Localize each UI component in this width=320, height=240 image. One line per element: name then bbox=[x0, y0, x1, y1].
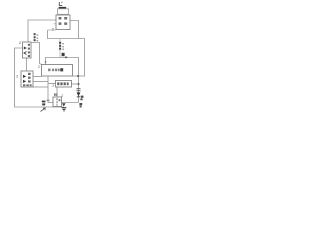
node junction dots bbox=[77, 75, 79, 77]
T2 small text bbox=[62, 43, 64, 50]
wire bbox=[59, 39, 61, 58]
box A arrow bbox=[24, 47, 27, 50]
box D bbox=[56, 81, 72, 88]
S1 small text bbox=[37, 34, 39, 41]
pin tick on U1 left bbox=[54, 22, 56, 25]
wire bbox=[48, 102, 53, 104]
wire bbox=[46, 58, 79, 103]
svg-text:2: 2 bbox=[61, 94, 63, 98]
wire bbox=[33, 81, 48, 83]
cap on right rail bbox=[77, 88, 81, 90]
buzzer bar bbox=[59, 7, 67, 9]
label right of rail lower bbox=[79, 103, 82, 107]
D1 label bbox=[80, 96, 83, 101]
wire bbox=[47, 77, 49, 103]
box B bbox=[21, 71, 33, 87]
box A bbox=[23, 42, 32, 58]
wire bbox=[33, 86, 48, 88]
box A right chars bbox=[28, 44, 30, 57]
wire bbox=[31, 43, 42, 65]
relay box E bbox=[53, 97, 62, 107]
wire bbox=[28, 20, 56, 42]
box A mark bbox=[24, 52, 27, 55]
box C last char darker bbox=[60, 68, 63, 71]
wire bbox=[33, 76, 42, 78]
tick on line bbox=[65, 57, 67, 59]
wire bbox=[15, 48, 65, 107]
terminal dots T2 bbox=[59, 42, 61, 50]
svg-text:2: 2 bbox=[16, 74, 18, 78]
box B right chars bbox=[28, 73, 31, 83]
wire bbox=[56, 106, 58, 109]
box B blobs bbox=[23, 75, 26, 78]
wire bbox=[62, 102, 79, 104]
wire bbox=[48, 30, 85, 77]
relay inner mark bbox=[59, 99, 61, 101]
relay coil dashes bbox=[56, 98, 58, 105]
cap C1 plates bbox=[42, 101, 46, 106]
box U1 bbox=[56, 15, 70, 30]
buzzer body bbox=[58, 9, 69, 15]
svg-text:2: 2 bbox=[19, 41, 21, 45]
wire bbox=[48, 83, 56, 85]
terminal dots S1 bbox=[34, 33, 36, 41]
diode D1 bbox=[77, 92, 81, 96]
arrow below rail bbox=[41, 108, 46, 112]
wire bbox=[70, 21, 79, 39]
U1 text bbox=[59, 17, 68, 25]
box B bottom chars bbox=[23, 84, 32, 86]
wire bbox=[48, 29, 57, 31]
box C bbox=[42, 65, 73, 77]
wire bbox=[56, 87, 58, 97]
mid label 38 bbox=[62, 53, 65, 56]
wire bbox=[26, 58, 28, 71]
svg-text:2: 2 bbox=[52, 84, 54, 88]
svg-text:2: 2 bbox=[38, 65, 40, 69]
tick on x48 bbox=[47, 100, 50, 101]
wire bbox=[72, 83, 79, 85]
box D text bbox=[57, 82, 68, 85]
relay label left bbox=[54, 93, 55, 95]
box C text bbox=[48, 69, 60, 72]
label above buzzer bbox=[59, 2, 62, 5]
ground symbol bbox=[62, 103, 66, 106]
wire bbox=[73, 75, 85, 77]
